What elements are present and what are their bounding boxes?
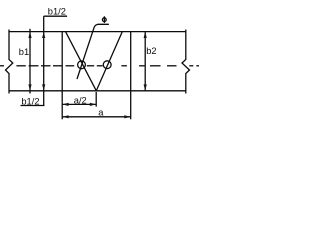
zone edge left — [61, 32, 63, 91]
dim line b2 — [144, 32, 146, 91]
leader to phi — [77, 24, 109, 79]
extension a/2 apex — [95, 92, 97, 107]
bend circle 1 — [78, 61, 86, 69]
arrow b1/2 top — [42, 32, 45, 38]
svg-text:b1: b1 — [19, 47, 29, 57]
bottom shelf b1/2 — [21, 105, 45, 107]
dim line b1/2 — [43, 16, 45, 105]
svg-text:b1/2: b1/2 — [48, 7, 66, 17]
beam top edge — [9, 31, 186, 33]
arrow a right — [124, 115, 130, 118]
dim line b1 — [29, 29, 31, 94]
arrow b2 bottom — [144, 84, 147, 90]
arrow a left — [62, 115, 68, 118]
arrow a/2 left — [62, 103, 68, 106]
centerline — [0, 65, 199, 67]
arrow b2 top — [144, 32, 147, 38]
dim line a — [62, 116, 131, 118]
bent bar 1 — [66, 32, 97, 91]
svg-text:a/2: a/2 — [74, 95, 87, 105]
bent bar 2 — [96, 32, 122, 91]
arrow b1 top — [28, 32, 31, 38]
dim line a/2 — [62, 103, 96, 105]
extension left a — [61, 91, 63, 120]
extension right a — [130, 91, 132, 120]
top shelf b1/2 — [44, 15, 67, 17]
svg-text:b2: b2 — [146, 46, 156, 56]
left break line — [6, 30, 13, 94]
arrow b1/2 bottom — [42, 84, 45, 90]
phi symbol — [102, 16, 106, 23]
right break line — [182, 30, 190, 94]
bend circle 2 — [103, 61, 111, 69]
svg-text:b1/2: b1/2 — [21, 96, 39, 106]
zone edge right — [130, 32, 132, 91]
beam bottom edge — [9, 90, 186, 92]
svg-text:a: a — [98, 108, 104, 118]
arrow a/2 right — [90, 103, 96, 106]
arrow b1 bottom — [28, 84, 31, 90]
